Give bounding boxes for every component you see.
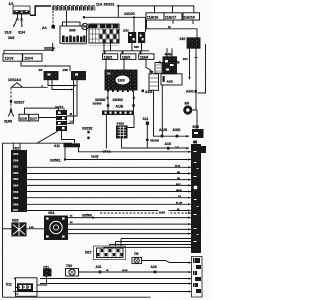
arrows into block lower bbox=[188, 212, 191, 235]
dashed wire 6/26 bbox=[100, 212, 191, 214]
connector tick 194 bbox=[195, 57, 198, 59]
dashed drop wire to A4 bbox=[52, 11, 54, 25]
switch 7/12 body bbox=[17, 283, 33, 292]
wire 33/100 drop bbox=[85, 6, 146, 32]
relay 2/6 bbox=[39, 68, 59, 80]
arrows on relay wires bbox=[71, 84, 77, 90]
relay 34/19 body bbox=[116, 125, 128, 138]
tick 31/57 bbox=[97, 156, 99, 160]
tick on wire bbox=[44, 65, 46, 68]
wire codes on bus bbox=[175, 166, 183, 211]
wire 6/28 to 4/31 bbox=[27, 228, 45, 230]
node square lower bbox=[10, 110, 12, 113]
dashed wire 33/227 bbox=[10, 87, 12, 111]
node 33/501 bbox=[64, 158, 66, 160]
connector box 11B/18 bbox=[183, 13, 200, 20]
junction block 2/32 bbox=[89, 24, 119, 45]
wire 33/501 to block bbox=[65, 159, 191, 161]
connector box 11B/2 bbox=[103, 54, 118, 60]
wires from relay 202 down to 4/46 bbox=[167, 48, 196, 110]
branch symbol bbox=[12, 83, 23, 88]
wires below 19/3 bbox=[108, 92, 134, 111]
relay 5/26 body bbox=[192, 129, 204, 138]
terminal A4 bbox=[52, 25, 56, 29]
connector box 11B/16 bbox=[146, 13, 164, 20]
wire left edge to 6/28 bbox=[3, 228, 12, 230]
wire from 34/19 down bbox=[122, 138, 190, 148]
wire from 4/46 down to lamp circuit bbox=[161, 85, 163, 136]
connector row 11A (comb of terminals) bbox=[53, 5, 95, 10]
lamp 7/9 bbox=[132, 257, 142, 263]
wire 7/9 to block bbox=[142, 261, 193, 263]
socket under 4/46 bbox=[161, 74, 182, 85]
terminal dot A1/B bbox=[161, 135, 164, 138]
wire 7/12 to 7/11 bbox=[37, 276, 47, 285]
pin numbers under 3/46 bbox=[62, 44, 86, 46]
terminal A1/A bbox=[142, 90, 145, 93]
terminal A11 right bbox=[146, 122, 149, 125]
bus wire top right bbox=[118, 6, 194, 13]
wire lamp to 5/26 bbox=[192, 110, 197, 129]
terminal bar A11 bbox=[64, 143, 81, 147]
connector 7/1 bbox=[44, 269, 52, 276]
wire A1/B A3/D bbox=[153, 135, 189, 137]
branch drops into 11B boxes bbox=[155, 6, 173, 13]
connector block lower right bbox=[192, 257, 203, 298]
connector box 11C/4 bbox=[23, 54, 42, 61]
connector box 7/8 bbox=[149, 74, 159, 91]
wire 33/204 horizontal bbox=[4, 43, 53, 54]
relay 202 body bbox=[187, 38, 200, 48]
outer bracket 6/27 bbox=[94, 246, 126, 260]
wire from A11 to bus bbox=[65, 147, 191, 159]
arrow on wire at 189.5 bbox=[188, 77, 190, 80]
connector marks on ground wires bbox=[16, 19, 23, 21]
terminal dot A16 bbox=[167, 147, 170, 150]
terminal dots A1/B bbox=[107, 104, 110, 107]
long wires bottom bbox=[40, 278, 192, 280]
terminal A31 bbox=[99, 271, 102, 274]
relay pair 2/32 bbox=[128, 32, 145, 43]
wire A11 down bbox=[146, 125, 148, 148]
bulb symbol bbox=[82, 23, 88, 29]
terminal A18 bbox=[154, 271, 157, 274]
wire below 11C boxes bbox=[21, 61, 70, 71]
wire across to fuse box 8/2 bbox=[3, 143, 73, 150]
arrows into lower block bbox=[189, 262, 192, 293]
connector box 11C/3 bbox=[3, 54, 22, 61]
motor 6/28 bbox=[11, 222, 26, 236]
connector box 11B/4 bbox=[139, 54, 154, 60]
motor 4/31 bbox=[44, 216, 68, 241]
arrows into right block bbox=[188, 151, 191, 212]
terminal dot A3/D bbox=[176, 135, 179, 138]
ground fork 31/86 bbox=[8, 111, 14, 117]
wire from connector row to relay box 3/46 bbox=[66, 11, 68, 27]
control module right block bbox=[191, 144, 206, 253]
relay box 3/46 bbox=[60, 26, 87, 43]
wire from 11B boxes to relay 202 bbox=[147, 20, 198, 38]
node dot 33/101 bbox=[117, 5, 119, 7]
node 33/205 bbox=[145, 138, 149, 142]
arrow into block bbox=[186, 135, 189, 137]
connector box 11B/17 bbox=[164, 13, 182, 20]
pin teeth under 19/3 bbox=[107, 90, 134, 92]
bus wires from fuse box to right block bbox=[27, 166, 191, 168]
nested wires to 6/27 bbox=[121, 239, 191, 247]
connector 6/27 bbox=[97, 248, 124, 258]
node square 33/227 bbox=[10, 100, 12, 103]
wire 7/10 to A31 bbox=[79, 271, 193, 273]
thick feed wire from 1/1 to connector row 11A bbox=[30, 6, 51, 15]
connector box 11C/6 bbox=[19, 114, 29, 121]
right edge wire bbox=[198, 44, 206, 93]
pin box left of 4/46 bbox=[155, 63, 162, 74]
fuse box 8/2 bbox=[11, 150, 27, 212]
ground wire 31/3 bbox=[14, 14, 18, 26]
label 6/26 bbox=[159, 210, 169, 214]
control unit 19/3 bbox=[105, 70, 137, 90]
left edge wire bbox=[2, 143, 4, 297]
wire from 11C/6 riser bbox=[25, 108, 59, 114]
ground wire 31/4 bbox=[21, 14, 24, 26]
relay 2/26 bbox=[63, 68, 86, 80]
relay 4/46 body bbox=[163, 57, 177, 74]
node 33/500 bbox=[92, 217, 94, 219]
wire from 7/8 down bbox=[153, 90, 155, 136]
node dot 2/32 feed bbox=[133, 16, 135, 18]
scan noise bbox=[0, 0, 1, 1]
wire 34/19 to bar bbox=[128, 115, 135, 128]
connector bar A1/B bbox=[102, 111, 134, 116]
sub-box on 3/46 bbox=[63, 22, 81, 26]
connector box 11C/7 bbox=[29, 114, 39, 121]
hook at wire end bbox=[83, 17, 85, 19]
wire 34/19 bottom to A11 bbox=[37, 131, 75, 143]
wire loop at 7/12 bbox=[14, 278, 19, 294]
wire from branch bbox=[12, 85, 48, 87]
node dot 33/204 bbox=[52, 49, 54, 51]
switch 7/12 outer bbox=[16, 278, 38, 297]
lamp 8/9 bbox=[183, 105, 192, 114]
wire bar to 4/33:1 bbox=[105, 115, 107, 149]
pin row inside 3/46 bbox=[62, 36, 85, 43]
bracket over 11B/2-4 bbox=[103, 43, 150, 54]
dots 33/232 bbox=[87, 131, 89, 134]
lamp 7/10 bbox=[66, 269, 79, 277]
wires under relays bbox=[48, 80, 77, 124]
relay 1/1 box bbox=[13, 6, 30, 14]
drops from 11B boxes bbox=[106, 59, 151, 73]
inline connector marks bbox=[107, 97, 135, 100]
wire from 11C/7 bbox=[39, 117, 57, 119]
arrow into block A16 bbox=[186, 147, 189, 149]
wires from 4/31 to right block bbox=[68, 217, 191, 219]
junction block 34/19 bbox=[56, 108, 67, 131]
connector box 11B/3 bbox=[121, 54, 136, 60]
